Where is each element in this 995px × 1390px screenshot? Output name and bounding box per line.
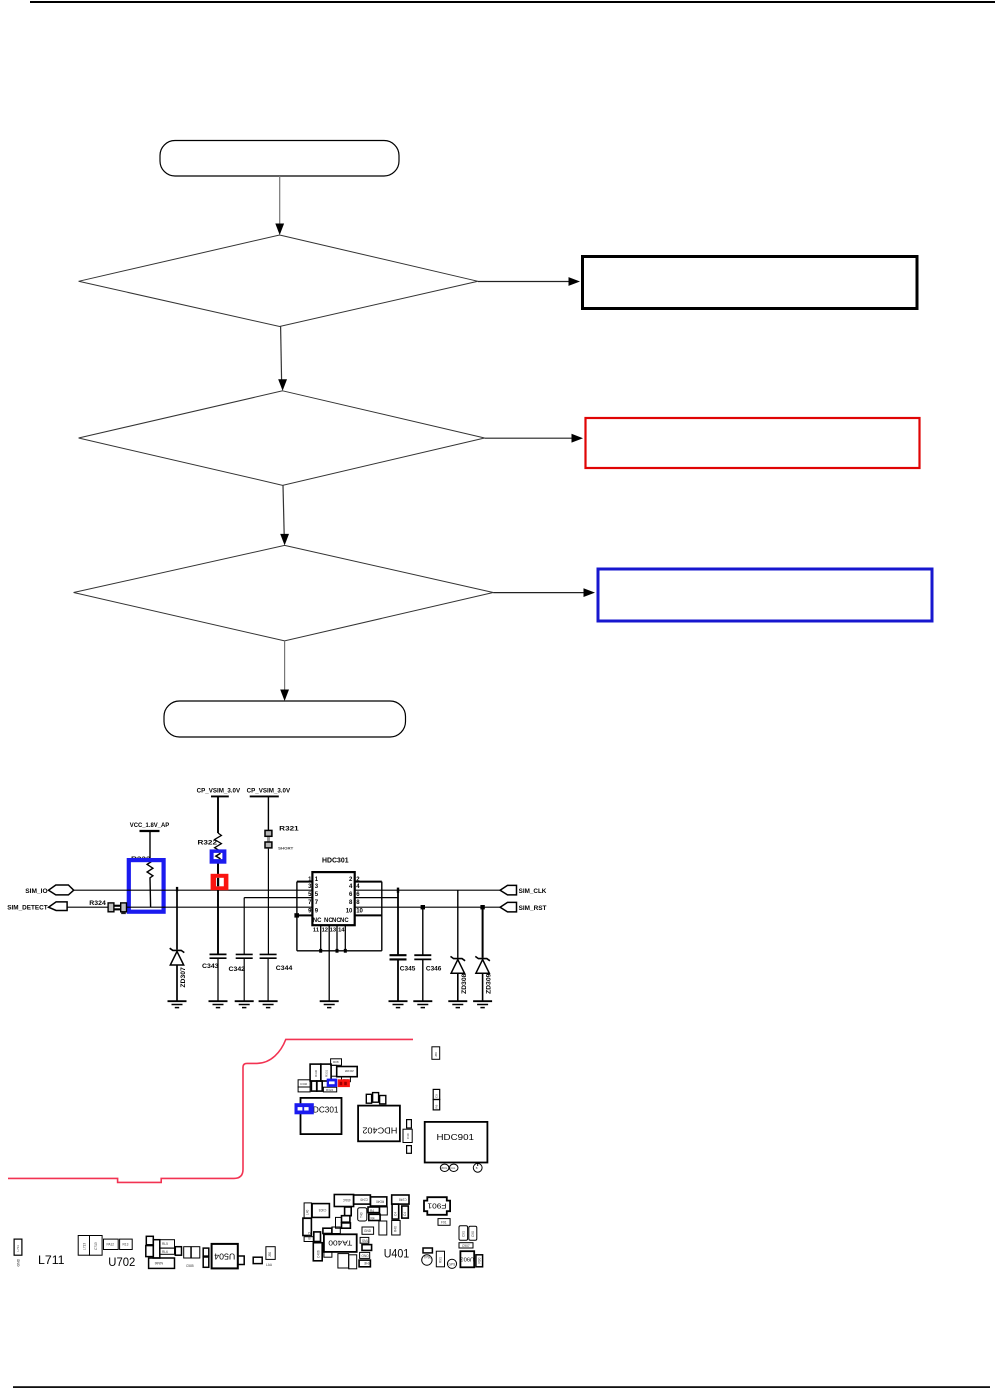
highlight box (blue) around R323 xyxy=(129,860,164,912)
top parts cluster near HDC301 xyxy=(298,1059,357,1092)
power flag CP_VSIM_3.0V (right) xyxy=(247,788,291,797)
ground under C346 xyxy=(413,1001,432,1007)
IC HDC301 on PCB xyxy=(301,1098,342,1134)
svg-text:6: 6 xyxy=(349,892,353,898)
zener diode ZD308 xyxy=(451,890,468,1001)
resistor R322 xyxy=(198,796,222,874)
svg-text:SHORT: SHORT xyxy=(278,846,294,850)
pins 11-14 HDC301 xyxy=(313,925,345,951)
svg-text:C340: C340 xyxy=(300,1082,308,1086)
right column small parts xyxy=(432,1047,440,1110)
IC U903 on PCB xyxy=(460,1251,474,1267)
svg-text:C4: C4 xyxy=(394,1212,398,1216)
svg-text:SML: SML xyxy=(362,1239,369,1243)
junction on SIM_RST at C346 xyxy=(421,905,425,909)
svg-text:5: 5 xyxy=(315,892,319,898)
svg-text:C713: C713 xyxy=(94,1242,98,1250)
svg-text:HDC901: HDC901 xyxy=(437,1132,475,1142)
svg-text:NC: NC xyxy=(313,918,322,924)
svg-text:ZD307: ZD307 xyxy=(181,966,187,987)
svg-text:C344: C344 xyxy=(276,965,293,972)
svg-text:C403: C403 xyxy=(319,1208,327,1212)
svg-text:ZD308: ZD308 xyxy=(462,973,468,994)
svg-text:L711: L711 xyxy=(16,1245,20,1252)
svg-text:10: 10 xyxy=(346,909,353,915)
svg-text:TA400: TA400 xyxy=(328,1239,352,1248)
regulator U702 on PCB xyxy=(78,1236,132,1256)
svg-text:R330: R330 xyxy=(314,1069,318,1077)
svg-text:L713: L713 xyxy=(83,1243,87,1250)
capacitor C342 xyxy=(229,898,253,1002)
highlight dot red (on PCB) xyxy=(338,1079,350,1087)
U401 cluster on PCB xyxy=(303,1195,409,1269)
svg-text:B: B xyxy=(476,1166,478,1170)
svg-text:2: 2 xyxy=(349,877,353,883)
junction on SIM_IO at ZD307 xyxy=(176,887,178,891)
svg-text:TP90: TP90 xyxy=(424,1256,432,1260)
decision diamond 3 xyxy=(74,545,494,641)
svg-text:12: 12 xyxy=(322,927,328,933)
svg-text:PA12: PA12 xyxy=(107,1243,115,1247)
svg-text:HDC301: HDC301 xyxy=(322,858,349,865)
svg-text:R331: R331 xyxy=(325,1069,329,1077)
svg-text:CP_VSIM_3.0V: CP_VSIM_3.0V xyxy=(247,788,291,795)
wire SIM_IO to HDC301 pin3 xyxy=(74,889,313,891)
power flag CP_VSIM_3.0V (left) xyxy=(197,788,241,797)
decision diamond 2 xyxy=(79,391,485,486)
wire HDC301 pin8 to SIM_RST xyxy=(382,906,500,908)
wire arrow decision 2 to decision 3 xyxy=(280,485,289,545)
svg-text:R08: R08 xyxy=(333,1060,339,1064)
svg-text:R324: R324 xyxy=(89,900,106,907)
test pads below HDC901 xyxy=(440,1163,482,1172)
IC HDC402 on PCB xyxy=(358,1106,400,1142)
right lower cluster U903 xyxy=(422,1226,483,1269)
flowchart end terminator xyxy=(164,701,406,737)
node SIM_DETECT connector xyxy=(7,902,67,912)
zener diode ZD309 xyxy=(475,907,492,1001)
highlight dot blue (R322 on PCB) xyxy=(327,1079,338,1087)
HDC301 left pin stack xyxy=(297,882,313,916)
svg-text:R322: R322 xyxy=(198,840,218,847)
node SIM_IO connector xyxy=(25,885,73,895)
pin numbers HDC301 outside xyxy=(308,877,363,915)
parts right of HDC402 xyxy=(403,1120,412,1154)
svg-text:C90: C90 xyxy=(471,1231,475,1237)
svg-text:R9: R9 xyxy=(435,1104,439,1108)
power flag VCC_1.8V_AP xyxy=(130,822,170,831)
svg-text:U702: U702 xyxy=(108,1257,135,1269)
svg-text:HDC402: HDC402 xyxy=(362,1125,397,1135)
action box 2 (red) xyxy=(586,418,920,468)
svg-text:L40: L40 xyxy=(306,1209,310,1215)
svg-text:4: 4 xyxy=(356,884,360,890)
wire arrow decision 3 to action box 3 xyxy=(493,588,595,597)
ground under C345 xyxy=(389,1001,408,1007)
svg-text:10: 10 xyxy=(356,909,363,915)
svg-text:1: 1 xyxy=(315,877,319,883)
svg-text:3: 3 xyxy=(315,884,319,890)
svg-text:C585: C585 xyxy=(186,1264,194,1268)
svg-text:R91: R91 xyxy=(439,1257,443,1263)
wire HDC301 pin6 stub xyxy=(382,897,398,899)
svg-text:ONO: ONO xyxy=(362,1254,370,1258)
svg-text:U504: U504 xyxy=(214,1251,235,1261)
svg-text:MA66: MA66 xyxy=(154,1261,163,1265)
svg-text:C240: C240 xyxy=(360,1198,368,1202)
wire R321 down to C344 xyxy=(267,849,269,955)
wire arrow decision 1 to decision 2 xyxy=(278,327,287,391)
wire HDC301 pin4 to SIM_CLK xyxy=(382,889,500,891)
svg-text:CP_VSIM_3.0V: CP_VSIM_3.0V xyxy=(197,788,241,795)
svg-text:GPS: GPS xyxy=(449,1263,456,1267)
ground under ZD308 xyxy=(448,1001,467,1007)
header rule xyxy=(30,1,995,3)
fuse F901 on PCB xyxy=(424,1197,450,1215)
ground under ZD309 xyxy=(473,1001,492,1007)
svg-text:CAL: CAL xyxy=(450,1166,456,1170)
ground under ZD307 xyxy=(168,1001,187,1007)
IC HDC901 on PCB xyxy=(425,1122,488,1163)
svg-text:R324: R324 xyxy=(326,1088,334,1092)
svg-text:4: 4 xyxy=(349,884,353,890)
highlight bar blue (over HDC301 label) xyxy=(295,1103,314,1114)
wire arrow decision 3 to end terminator xyxy=(280,641,289,701)
U504 cluster on PCB xyxy=(146,1236,275,1268)
svg-text:8: 8 xyxy=(349,900,353,906)
IC HDC301 xyxy=(312,858,354,926)
action box 3 (blue) xyxy=(598,569,932,621)
junction on SIM_RST at ZD309 xyxy=(480,905,484,909)
svg-text:RD40: RD40 xyxy=(376,1200,384,1204)
svg-text:C345: C345 xyxy=(400,965,416,972)
svg-text:R4: R4 xyxy=(370,1209,374,1213)
svg-text:RL5: RL5 xyxy=(162,1242,168,1246)
svg-text:J80: J80 xyxy=(434,1052,438,1057)
svg-text:C40: C40 xyxy=(406,1133,410,1139)
svg-text:U903: U903 xyxy=(460,1255,474,1261)
svg-text:J50: J50 xyxy=(268,1252,272,1257)
wire SIM_DETECT to R324 xyxy=(67,906,108,908)
svg-text:L711: L711 xyxy=(38,1255,65,1267)
svg-text:R13: R13 xyxy=(123,1243,129,1247)
wire C342 to HDC301 pin5 xyxy=(244,897,312,899)
svg-text:C4: C4 xyxy=(403,1212,407,1216)
svg-text:C9: C9 xyxy=(435,1094,439,1098)
svg-text:R4: R4 xyxy=(371,1217,375,1221)
highlight dot (blue) on R322 branch xyxy=(210,849,227,863)
resistor R324 (short) xyxy=(89,900,126,914)
svg-text:C248: C248 xyxy=(399,1198,407,1202)
flowchart start terminator xyxy=(160,141,399,177)
svg-text:7: 7 xyxy=(315,900,319,906)
svg-text:8: 8 xyxy=(356,900,360,906)
highlight dot (red) on R322 branch xyxy=(211,874,229,890)
wire R324 to HDC301 pin7 xyxy=(127,906,313,908)
svg-text:C343: C343 xyxy=(202,963,219,970)
capacitor C345 xyxy=(390,890,416,1001)
svg-text:SIM_CLK: SIM_CLK xyxy=(519,888,547,895)
svg-text:9: 9 xyxy=(315,909,319,915)
inductor L711 on PCB xyxy=(14,1239,64,1267)
svg-text:C342: C342 xyxy=(229,966,246,973)
svg-text:11: 11 xyxy=(313,927,320,933)
NC loop wires to ground rail xyxy=(294,882,381,1002)
HDC301 right pin stack xyxy=(355,882,382,916)
node SIM_CLK connector xyxy=(500,885,547,895)
ground under C344 xyxy=(259,1001,278,1007)
resistor R323 (inside blue highlight box) xyxy=(131,856,153,907)
ground under C342 xyxy=(235,1001,254,1007)
NC labels HDC301 xyxy=(313,918,350,924)
svg-text:GND: GND xyxy=(364,1229,372,1233)
zener diode ZD307 xyxy=(170,890,188,1001)
svg-text:R321: R321 xyxy=(279,826,299,833)
svg-text:C907: C907 xyxy=(462,1244,470,1248)
capacitor C344 xyxy=(260,954,293,1001)
resistor R321 (SHORT) xyxy=(265,796,299,850)
svg-text:14: 14 xyxy=(338,927,345,933)
wire R322 branch down to C343 xyxy=(217,890,219,954)
svg-text:T40: T40 xyxy=(360,1212,364,1218)
svg-text:GND: GND xyxy=(17,1258,21,1266)
IC U504 on PCB xyxy=(212,1244,238,1269)
svg-text:ZHE: ZHE xyxy=(364,1261,370,1265)
wire arrow start to decision 1 xyxy=(275,176,284,235)
svg-text:VCC_1.8V_AP: VCC_1.8V_AP xyxy=(130,822,170,829)
wire arrow decision 1 to action box 1 xyxy=(478,277,580,286)
IC TA400 on PCB xyxy=(324,1234,357,1252)
decision diamond 1 xyxy=(79,235,478,327)
capacitor C346 xyxy=(414,907,442,1001)
svg-text:C406: C406 xyxy=(317,1250,321,1258)
svg-text:C346: C346 xyxy=(426,965,442,972)
svg-text:R40: R40 xyxy=(394,1226,398,1232)
svg-text:NC: NC xyxy=(340,918,349,924)
svg-text:SIM_RST: SIM_RST xyxy=(519,905,547,912)
pin numbers HDC301 inside xyxy=(315,877,353,915)
svg-text:SIM_IO: SIM_IO xyxy=(25,888,47,895)
svg-text:C91: C91 xyxy=(462,1231,466,1237)
capacitor C343 xyxy=(202,954,227,1001)
svg-text:F91: F91 xyxy=(441,1221,447,1225)
wire VCC stem to R323 xyxy=(149,831,151,859)
svg-text:SIM_DETECT: SIM_DETECT xyxy=(7,905,47,912)
node SIM_RST connector xyxy=(500,902,546,912)
svg-text:40AC: 40AC xyxy=(342,1198,351,1202)
wire arrow decision 2 to action box 2 xyxy=(485,434,583,443)
svg-text:U401: U401 xyxy=(384,1247,410,1261)
parts near F901 xyxy=(438,1219,450,1226)
svg-text:F901: F901 xyxy=(428,1202,447,1211)
svg-text:R90: R90 xyxy=(478,1257,482,1263)
ground under HDC301 xyxy=(320,1001,339,1007)
svg-text:ZD309: ZD309 xyxy=(487,973,493,994)
parts above HDC402 xyxy=(366,1093,386,1104)
svg-text:MICG: MICG xyxy=(441,1166,448,1170)
svg-text:C409: C409 xyxy=(307,1232,311,1240)
ground under C343 xyxy=(209,1001,228,1007)
svg-text:13: 13 xyxy=(330,927,337,933)
svg-text:RL6: RL6 xyxy=(162,1250,168,1254)
svg-text:LAA: LAA xyxy=(266,1263,273,1267)
junction on SIM_CLK at C345 xyxy=(397,888,399,893)
footer rule xyxy=(13,1386,990,1388)
action box 1 (black) xyxy=(583,257,918,309)
svg-text:ZD308: ZD308 xyxy=(344,1069,353,1073)
board outline (red) xyxy=(8,1039,413,1182)
U401 label xyxy=(384,1247,410,1261)
